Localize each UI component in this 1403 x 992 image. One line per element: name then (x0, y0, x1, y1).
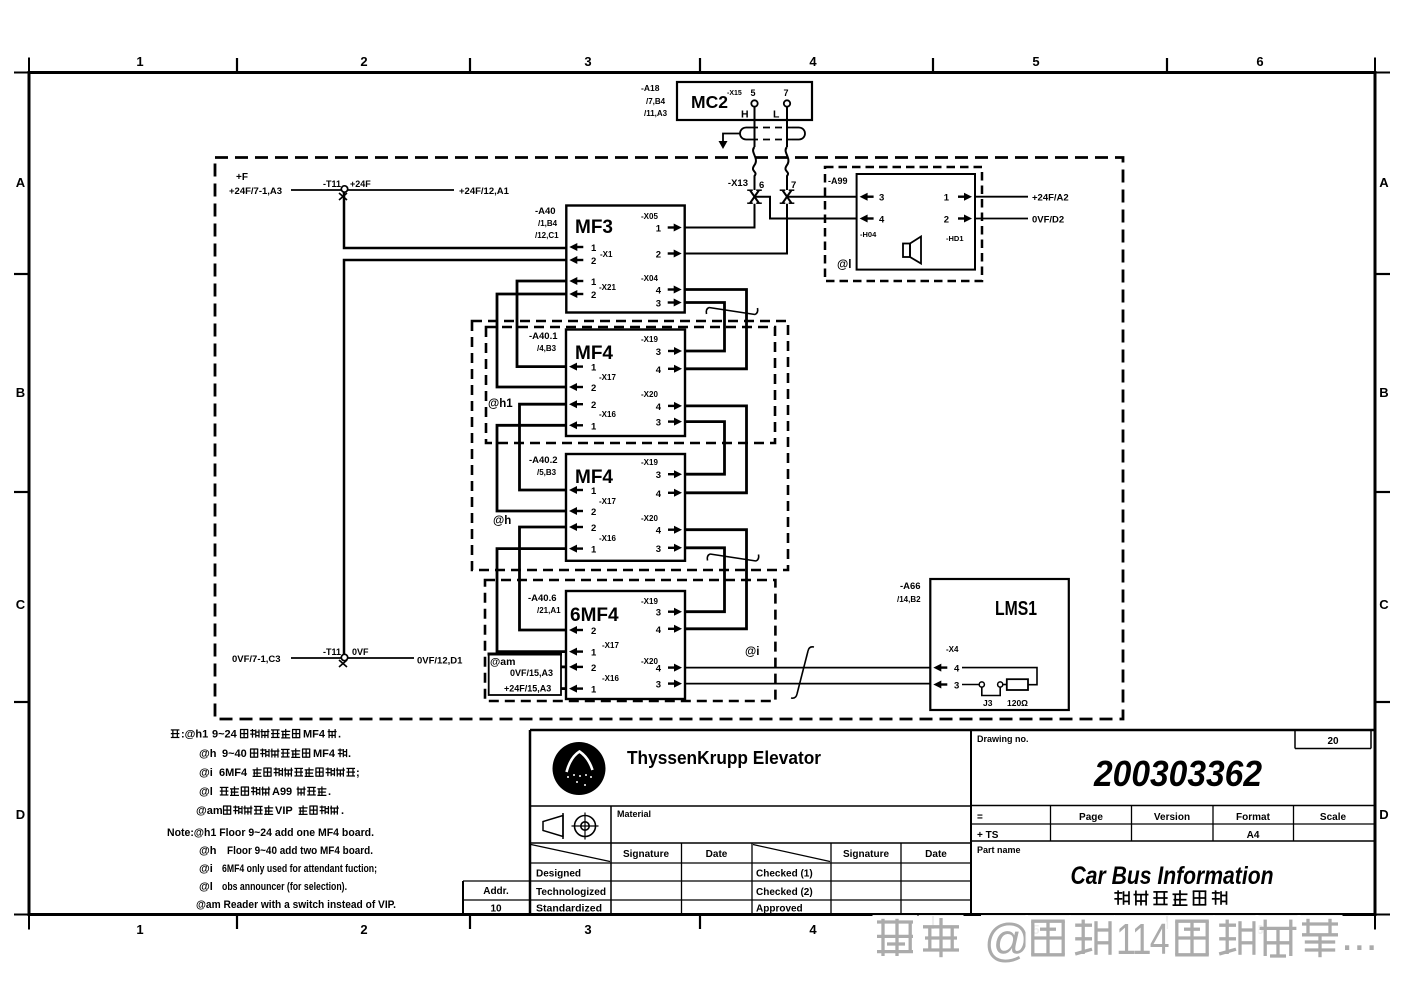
title row 2 (977, 830, 1260, 841)
svg-text:4: 4 (809, 54, 817, 69)
A40.1 X17 pin 2 (569, 383, 596, 394)
label 120ohm (1007, 698, 1028, 708)
MF3 X04 pin 3 (656, 299, 682, 310)
svg-text:2: 2 (360, 922, 367, 937)
connector -X13 pin 6 (747, 180, 764, 203)
svg-text:.: . (348, 748, 351, 760)
A40.1 X16 pin 1 (569, 421, 597, 432)
wire X13:6 to A99:4 (755, 197, 857, 219)
wire @am to 6MF4 X16:2 (561, 666, 566, 669)
svg-text:5: 5 (1032, 54, 1039, 69)
svg-text:-X20: -X20 (641, 514, 658, 523)
svg-text:3: 3 (656, 470, 661, 481)
wire X13:7 to A99:3 (787, 196, 857, 198)
label Drawing no (977, 734, 1029, 744)
svg-text:2: 2 (591, 663, 596, 674)
svg-text:@am: @am (196, 805, 223, 817)
svg-text:A: A (16, 175, 26, 190)
svg-text:-A40.6: -A40.6 (528, 593, 557, 604)
A40.2 connector -X20 label (641, 514, 658, 523)
svg-text:+ TS: + TS (977, 830, 999, 841)
MF3 X04 pin 4 (656, 286, 682, 297)
svg-text:3: 3 (656, 680, 661, 691)
svg-text:2: 2 (591, 523, 596, 534)
svg-text:LMS1: LMS1 (995, 598, 1037, 620)
wire +24F horizontal (291, 189, 454, 191)
bus wire A40.1 X20:4 to A40.2 X19:4 (685, 406, 747, 493)
svg-text:1: 1 (591, 648, 597, 659)
designator -A40.2 labels (529, 455, 558, 477)
svg-text:1: 1 (136, 922, 143, 937)
svg-text:6: 6 (759, 180, 764, 191)
designator -A18 labels (641, 83, 668, 118)
svg-text:Signature: Signature (623, 849, 670, 860)
svg-text:-X21: -X21 (599, 283, 616, 292)
svg-text:1: 1 (591, 486, 597, 497)
svg-text:10: 10 (490, 904, 502, 915)
svg-text:obs announcer (for selection).: obs announcer (for selection). (222, 881, 347, 893)
bus wire A40.1 X20:3 to A40.2 X19:3 (685, 422, 725, 475)
A40.2 X20 pin 3 (656, 544, 682, 555)
svg-text:2: 2 (591, 626, 596, 637)
svg-text:MF4: MF4 (313, 748, 336, 760)
row letters left (16, 175, 26, 822)
MF3 connector -X05 label (641, 212, 658, 221)
svg-text:/12,C1: /12,C1 (535, 231, 559, 240)
svg-text:Page: Page (1079, 812, 1103, 823)
wire +24F rail to MF3 X1:1 (344, 192, 566, 248)
svg-text:MF4: MF4 (575, 343, 613, 364)
note line 1 (Chinese @h1) (171, 729, 341, 741)
bus wire A40.2 X16:1 to 6MF4 X17:1 (497, 549, 566, 652)
bus wire MF3 X21:2 to A40.1 X17:2 (497, 294, 566, 387)
shielded-cable symbol (stadium) (740, 128, 805, 140)
svg-text:Signature: Signature (843, 849, 890, 860)
svg-text:1: 1 (591, 243, 597, 254)
svg-text:H: H (741, 109, 749, 121)
svg-text:-X04: -X04 (641, 274, 658, 283)
company name (627, 748, 821, 768)
A40.2 connector -X19 label (641, 458, 658, 467)
svg-text:6MF4: 6MF4 (219, 767, 248, 779)
part name Chinese (1114, 890, 1226, 906)
svg-text:4: 4 (656, 402, 662, 413)
svg-text:Part name: Part name (977, 845, 1021, 855)
svg-text:Designed: Designed (536, 869, 581, 880)
svg-text:0VF/15,A3: 0VF/15,A3 (510, 668, 553, 678)
A40.1 X19 pin 3 (656, 347, 682, 358)
wire 6MF4 X20:3 to LMS1 X4:3 (685, 683, 930, 685)
bus wire A40.2 X16:2 to 6MF4 X17:2 (520, 527, 567, 630)
wire LMS1 pin3 to jumper (962, 684, 979, 686)
bus wire A40.1 X16:2 to A40.2 X17:1 (520, 404, 567, 490)
A40.2 X19 pin 3 (656, 470, 682, 481)
6MF4 connector -X20 label (641, 657, 658, 666)
A40.2 X20 pin 4 (656, 526, 682, 537)
designator -A99 (828, 176, 848, 186)
svg-text:2: 2 (591, 290, 596, 301)
svg-text:2: 2 (591, 400, 596, 411)
svg-text:MF4: MF4 (303, 729, 326, 741)
LMS1 X4 pin 3 (933, 681, 959, 692)
svg-text:ThyssenKrupp Elevator: ThyssenKrupp Elevator (627, 748, 821, 768)
A99 pin 1 (944, 193, 972, 204)
label @i (745, 646, 759, 658)
svg-text:-X17: -X17 (599, 497, 616, 506)
net label 0VF/7-1,C3 (232, 654, 281, 665)
wire CAN-H S-curve through car boundary (753, 147, 756, 190)
svg-text:@l: @l (199, 786, 213, 798)
svg-text:C: C (1379, 597, 1389, 612)
svg-text:0VF/12,D1: 0VF/12,D1 (417, 656, 463, 667)
label -T11 (bottom) (323, 647, 341, 657)
svg-text:MF4: MF4 (575, 467, 613, 488)
LMS1 connector -X4 label (946, 645, 959, 654)
svg-text:@: @ (984, 914, 1031, 966)
svg-text:2: 2 (656, 250, 661, 261)
svg-text:-A66: -A66 (900, 581, 921, 592)
designator -A40.1 labels (529, 331, 558, 353)
svg-text:3: 3 (656, 544, 661, 555)
svg-text:-X05: -X05 (641, 212, 658, 221)
title block grid (463, 730, 1375, 915)
svg-text:...: ... (1341, 911, 1378, 960)
svg-text:9~24: 9~24 (212, 729, 238, 741)
A40.1 connector -X19 label (641, 335, 658, 344)
twisted-pair mark 2 (707, 554, 758, 561)
wire 0VF horizontal (291, 657, 414, 659)
A40.2 X19 pin 4 (656, 489, 682, 500)
svg-text:B: B (16, 385, 25, 400)
wire 0VF rail to MF3 X1:2 (344, 260, 566, 654)
svg-text:7: 7 (791, 180, 796, 191)
svg-text:.: . (338, 729, 341, 741)
svg-text:-X16: -X16 (602, 674, 619, 683)
signature table headers (623, 849, 947, 860)
note line 9 English (199, 881, 347, 893)
option boundary @i (6MF4 attendant) (485, 580, 775, 701)
6MF4 X16 pin 2 (569, 663, 596, 674)
svg-text:-H04: -H04 (860, 230, 877, 239)
svg-text:@h1: @h1 (488, 398, 513, 410)
label 0VF (352, 647, 369, 657)
svg-text:Technologized: Technologized (536, 887, 606, 898)
6MF4 connector -X19 label (641, 597, 658, 606)
svg-text:=: = (977, 812, 983, 823)
connector -X13 pin 7 (780, 180, 797, 203)
svg-text:0VF/7-1,C3: 0VF/7-1,C3 (232, 654, 281, 665)
board MF4 -A40.2 box (566, 454, 685, 561)
A99 pin 3 (860, 193, 885, 204)
car enclosure dashed boundary (215, 158, 1123, 720)
ThyssenKrupp logo (553, 742, 606, 795)
wire LMS1 pin4 to resistor (962, 668, 1037, 685)
svg-text:-T11: -T11 (323, 179, 341, 189)
note line 5 (Chinese @am) (196, 805, 344, 817)
6MF4 X20 pin 4 (656, 664, 682, 675)
designator -A40 labels (535, 206, 559, 240)
A40.1 X20 pin 3 (656, 418, 682, 429)
svg-text:3: 3 (656, 299, 661, 310)
svg-text:-T11: -T11 (323, 647, 341, 657)
card reader box @am (488, 654, 563, 695)
svg-text:@l: @l (199, 881, 213, 893)
addr box (483, 886, 509, 915)
drawing number 200303362 (1093, 753, 1262, 794)
svg-text:Drawing no.: Drawing no. (977, 734, 1029, 744)
svg-text:3: 3 (879, 193, 884, 204)
svg-text:+24F/7-1,A3: +24F/7-1,A3 (229, 186, 282, 197)
label -T11 (top) (323, 179, 341, 189)
svg-text:Date: Date (925, 849, 947, 860)
svg-text:3: 3 (656, 347, 661, 358)
A40.2 X17 pin 2 (569, 507, 596, 518)
svg-text:@am: @am (490, 656, 515, 668)
A40.1 connector -X17 label (599, 373, 616, 382)
svg-text:1: 1 (944, 193, 950, 204)
note line 4 (Chinese @l) (199, 786, 331, 798)
svg-text:VIP: VIP (275, 805, 293, 817)
wire X13:7 to MF3 X05:2 (685, 204, 787, 254)
note line 8 English (199, 863, 377, 875)
svg-text:A: A (1379, 175, 1389, 190)
net label 0VF/12,D1 (417, 656, 463, 667)
svg-text:@l: @l (837, 259, 851, 271)
svg-text:4: 4 (656, 625, 662, 636)
row letters right (1379, 175, 1389, 822)
note line 7 English (199, 845, 373, 857)
svg-text:Checked (1): Checked (1) (756, 869, 813, 880)
controller MC2 -A18 (677, 82, 812, 121)
MF3 X21 pin 1 (569, 277, 597, 288)
svg-text:-X4: -X4 (946, 645, 959, 654)
label Material (617, 809, 651, 819)
bus wire A40.1 X16:1 to A40.2 X17:2 (497, 425, 566, 511)
svg-text:Scale: Scale (1320, 812, 1347, 823)
note line 6 English (167, 827, 374, 839)
MF3 X05 pin 1 (656, 224, 682, 235)
label -H04 (860, 230, 877, 239)
svg-text:@i: @i (199, 767, 213, 779)
svg-text:B: B (1379, 385, 1388, 400)
A40.1 X20 pin 4 (656, 402, 682, 413)
MF3 X05 pin 2 (656, 250, 682, 261)
svg-text:+24F/12,A1: +24F/12,A1 (459, 186, 510, 197)
label @l (837, 259, 851, 271)
svg-text:/5,B3: /5,B3 (537, 468, 557, 477)
svg-text:D: D (1379, 807, 1388, 822)
svg-text:-A40.1: -A40.1 (529, 331, 558, 342)
svg-text:4: 4 (656, 286, 662, 297)
svg-text:MC2: MC2 (691, 92, 728, 112)
svg-text:2: 2 (944, 215, 949, 226)
bus wire MF3 X21:1 to A40.1 X17:1 (517, 281, 566, 367)
board MF3 -A40 box (566, 206, 684, 313)
svg-text:3: 3 (656, 608, 661, 619)
A99 pin 2 (944, 215, 972, 226)
designator -A40.6 labels (528, 593, 561, 615)
svg-text:A99: A99 (272, 786, 292, 798)
resistor 120 ohm (1007, 679, 1028, 690)
projection symbol target (572, 813, 599, 840)
svg-text:+24F/A2: +24F/A2 (1032, 193, 1069, 204)
svg-text:L: L (773, 109, 780, 121)
option boundary @h (two added MF4 boards) (472, 321, 788, 570)
svg-text:Format: Format (1236, 812, 1271, 823)
title row labels (977, 812, 1347, 823)
6MF4 X20 pin 3 (656, 680, 682, 691)
wire jumper to resistor (1003, 684, 1007, 686)
svg-text:20: 20 (1327, 736, 1339, 747)
wire CAN-L from MC2:7 (786, 107, 788, 147)
svg-text:7: 7 (783, 88, 788, 98)
svg-text:-X19: -X19 (641, 335, 658, 344)
svg-text:-X19: -X19 (641, 458, 658, 467)
svg-text:-HD1: -HD1 (946, 234, 964, 243)
wire X13:6 to MF3 X05:1 (685, 204, 755, 228)
MF3 X1 pin 2 (569, 256, 596, 267)
A99 pin 4 (860, 215, 885, 226)
svg-text:4: 4 (879, 215, 885, 226)
note line 2 (Chinese @h) (199, 748, 351, 760)
signature table rows (536, 869, 813, 915)
svg-text:-A40: -A40 (535, 206, 556, 217)
bus wire A40.2 X20:4 to 6MF4 X19:4 (685, 530, 747, 629)
net label +24F/A2 (1032, 193, 1069, 204)
svg-text:4: 4 (656, 489, 662, 500)
svg-text:-X17: -X17 (599, 373, 616, 382)
A40.1 X16 pin 2 (569, 400, 596, 411)
note line 3 (Chinese @i) (199, 767, 360, 779)
svg-text:2: 2 (591, 256, 596, 267)
bus wire MF3 X04:4 to A40.1 X19:4 (685, 290, 747, 369)
svg-text:+24F: +24F (350, 179, 371, 189)
bus wire A40.2 X20:3 to 6MF4 X19:3 (685, 548, 725, 612)
svg-text:4: 4 (809, 922, 817, 937)
svg-text:-A18: -A18 (641, 83, 660, 93)
net label +24F/12,A1 (459, 186, 510, 197)
net label 0VF/D2 (1032, 215, 1064, 226)
MF3 X1 pin 1 (569, 243, 597, 254)
svg-text:@h: @h (199, 748, 217, 760)
svg-text:-X17: -X17 (602, 641, 619, 650)
svg-text:6: 6 (1256, 54, 1263, 69)
svg-text:1: 1 (656, 224, 662, 235)
svg-text:6MF4 only used for attendant: 6MF4 only used for attendant fuction; (222, 863, 377, 875)
svg-text:-X19: -X19 (641, 597, 658, 606)
svg-text:@i: @i (199, 863, 213, 875)
svg-text:-X13: -X13 (728, 178, 748, 189)
6MF4 connector -X17 label (602, 641, 619, 650)
terminal -T11 0VF junction (339, 654, 348, 667)
svg-text:Standardized: Standardized (536, 904, 602, 915)
label Part name (977, 845, 1021, 855)
6MF4 X19 pin 3 (656, 608, 682, 619)
svg-text:1: 1 (591, 685, 597, 696)
svg-text:3: 3 (656, 418, 661, 429)
board MF4 -A40.1 box (566, 330, 685, 437)
svg-text:Material: Material (617, 809, 651, 819)
svg-text:@i: @i (745, 646, 759, 658)
svg-text:Date: Date (706, 849, 728, 860)
svg-text:Addr.: Addr. (483, 886, 509, 897)
svg-text:3: 3 (584, 54, 591, 69)
svg-text:Approved: Approved (756, 904, 803, 915)
label -HD1 (946, 234, 964, 243)
label +24F (350, 179, 371, 189)
svg-text:@am Reader with a switch inste: @am Reader with a switch instead of VIP. (196, 899, 396, 911)
svg-text:+F: +F (236, 172, 248, 183)
svg-text:9~40: 9~40 (222, 748, 247, 760)
svg-text::@h1: :@h1 (181, 729, 208, 741)
svg-text:2: 2 (591, 507, 596, 518)
svg-text:6MF4: 6MF4 (570, 605, 619, 626)
note line 10 English (196, 899, 396, 911)
svg-text:-X20: -X20 (641, 390, 658, 399)
sheet number 20 (1327, 736, 1339, 747)
label -X13 (728, 178, 748, 189)
svg-text:1: 1 (591, 277, 597, 288)
svg-text:/1,B4: /1,B4 (538, 219, 558, 228)
svg-text:-A99: -A99 (828, 176, 848, 186)
svg-text:4: 4 (656, 365, 662, 376)
column numbers top (136, 54, 1263, 69)
svg-text:120Ω: 120Ω (1007, 698, 1028, 708)
6MF4 connector -X16 label (602, 674, 619, 683)
A40.2 X16 pin 1 (569, 545, 597, 556)
svg-text:5: 5 (750, 88, 755, 98)
twisted-pair mark 3 (791, 647, 814, 698)
svg-text:2: 2 (591, 383, 596, 394)
svg-text:114: 114 (1116, 915, 1169, 964)
svg-text:.: . (328, 786, 331, 798)
MF3 connector -X1 label (600, 250, 613, 259)
svg-text:;: ; (356, 767, 360, 779)
option boundary @h1 (one added MF4 board) (486, 327, 775, 443)
A40.1 X17 pin 1 (569, 363, 597, 374)
load weighing unit LMS1 box (930, 579, 1069, 710)
wire A99:1 to +24F/A2 (975, 196, 1028, 198)
wire @am to 6MF4 X16:1 (561, 687, 566, 690)
svg-text:/14,B2: /14,B2 (897, 595, 921, 604)
svg-text:MF3: MF3 (575, 217, 613, 238)
svg-text:A4: A4 (1247, 830, 1260, 841)
svg-text:D: D (16, 807, 25, 822)
speaker HD1 symbol (903, 237, 921, 264)
svg-text:@h: @h (199, 845, 217, 857)
svg-text:/11,A3: /11,A3 (644, 109, 668, 118)
svg-text:-X16: -X16 (599, 410, 616, 419)
svg-text:Car Bus Information: Car Bus Information (1071, 862, 1274, 890)
A40.2 connector -X17 label (599, 497, 616, 506)
svg-text:/21,A1: /21,A1 (537, 606, 561, 615)
A40.2 connector -X16 label (599, 534, 616, 543)
designator -A66 labels (897, 581, 921, 604)
MF3 connector -X04 label (641, 274, 658, 283)
svg-text:Floor 9~40 add two MF4 board.: Floor 9~40 add two MF4 board. (227, 845, 373, 857)
svg-text:J3: J3 (983, 698, 993, 708)
net label +24F/7-1,A3 (229, 186, 282, 197)
projection symbol cone (543, 813, 563, 839)
svg-text:/4,B3: /4,B3 (537, 344, 557, 353)
bus wire MF3 X04:3 to A40.1 X19:3 (685, 303, 725, 352)
LMS1 X4 pin 4 (933, 664, 960, 675)
MF3 X21 pin 2 (569, 290, 596, 301)
label @h (493, 515, 511, 527)
svg-text:Note:@h1 Floor 9~24 add one MF: Note:@h1 Floor 9~24 add one MF4 board. (167, 827, 374, 839)
svg-text:4: 4 (656, 664, 662, 675)
svg-text:/7,B4: /7,B4 (646, 97, 666, 106)
